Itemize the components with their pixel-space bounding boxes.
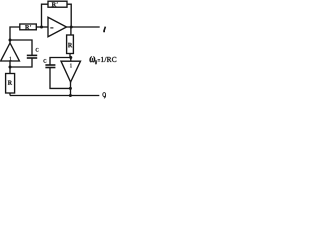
resistor R2	[6, 74, 15, 94]
node F junction dot	[69, 87, 72, 90]
label R2 value	[8, 80, 12, 84]
label R'1 value	[52, 2, 58, 6]
label 1/RC	[101, 57, 116, 62]
label T2 gain 1	[70, 64, 72, 68]
wire T1 output stub to node C	[9, 40, 11, 43]
wire R'1 left lead down to node A	[42, 4, 49, 27]
wire R'1 right lead down to node B	[67, 4, 71, 27]
op-amp U1	[48, 17, 67, 36]
terminal label v1	[103, 27, 105, 32]
capacitor C2	[45, 65, 55, 68]
label T1 gain 1	[10, 57, 12, 61]
label omega_0	[90, 56, 96, 62]
node C junction dot	[9, 39, 12, 42]
label R1 value	[68, 43, 72, 47]
wire C1 bottom to node D	[10, 58, 32, 67]
resistor R1 top lead from node B	[70, 27, 72, 35]
wire bottom bus to terminal v2	[10, 95, 99, 97]
node A junction dot	[40, 26, 43, 29]
wire node E stub to T2 input	[70, 58, 72, 62]
wire R1 bottom to node E	[69, 54, 71, 58]
label omega subscript 0	[95, 60, 97, 64]
wire R'2 left lead down to node C	[10, 27, 20, 40]
node D junction dot	[9, 66, 12, 69]
buffer amplifier T1 (gain 1, pointing up)	[1, 43, 20, 61]
wire U1 output to terminal v1	[67, 26, 100, 28]
resistor R1	[67, 35, 74, 54]
wire T1 base to node D to resistor R2	[9, 61, 11, 74]
label R'2 value	[25, 25, 31, 29]
wire R2 bottom to bottom bus	[9, 93, 11, 96]
wire node E to capacitor C2 top	[50, 58, 71, 65]
wire C2 bottom to node F	[50, 68, 70, 89]
resistor R'2 (input)	[20, 24, 37, 30]
buffer amplifier T2 (gain 1, pointing down)	[61, 61, 81, 82]
wire U1 input	[36, 26, 48, 28]
label equals sign	[98, 60, 101, 62]
wire node C to capacitor C1 top	[10, 40, 32, 55]
label C1 value	[36, 48, 39, 52]
terminal label v2	[103, 93, 106, 99]
capacitor C1	[27, 55, 37, 58]
resistor R'1 (top feedback)	[48, 1, 67, 7]
wire T2 output stem to bottom bus	[70, 82, 72, 96]
node E junction dot	[69, 56, 72, 59]
node B junction dot	[70, 26, 73, 29]
label C2 value	[43, 59, 46, 63]
node G junction dot (stem to bus)	[69, 94, 72, 97]
